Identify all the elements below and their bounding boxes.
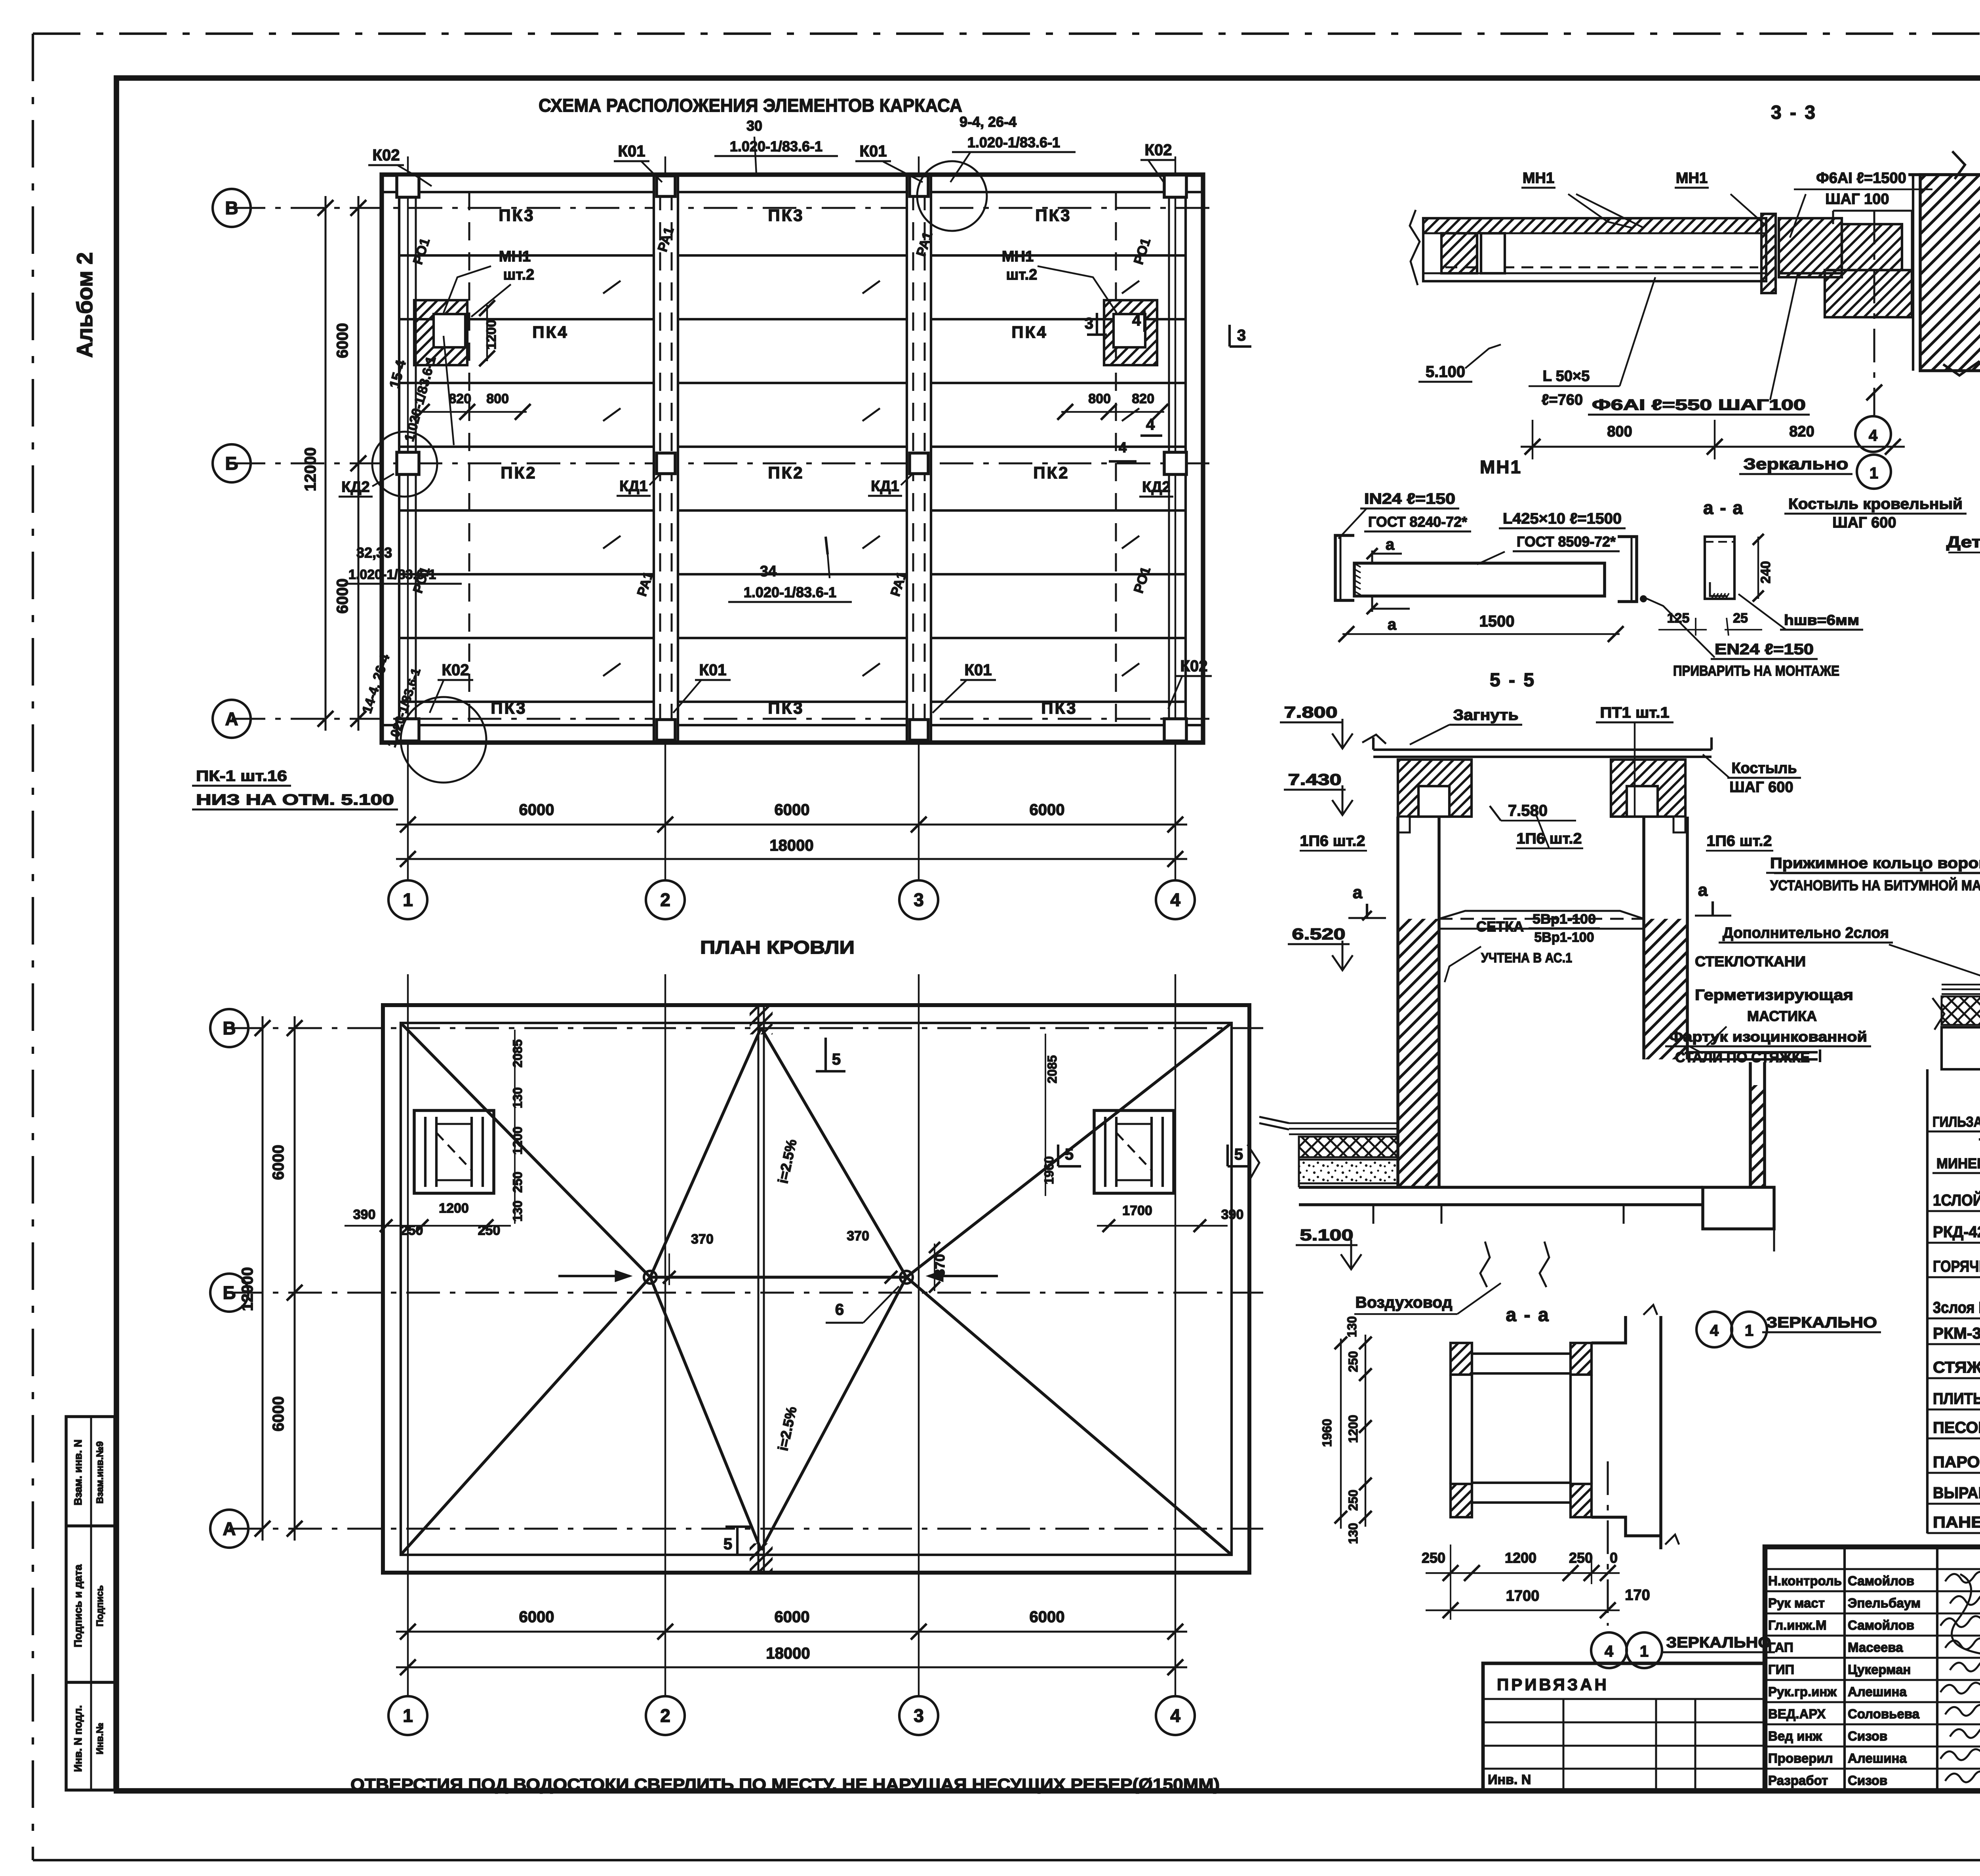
svg-text:МН1: МН1 xyxy=(1676,170,1708,187)
svg-text:Проверил: Проверил xyxy=(1768,1751,1833,1766)
svg-text:Костыль: Костыль xyxy=(1732,760,1797,777)
svg-text:32,33: 32,33 xyxy=(356,545,392,561)
svg-text:1700: 1700 xyxy=(1506,1588,1540,1604)
svg-text:a: a xyxy=(1353,883,1363,902)
svg-text:5: 5 xyxy=(832,1051,841,1068)
svg-text:ОТВЕРСТИЯ ПОД ВОДОСТОКИ СВЕ: ОТВЕРСТИЯ ПОД ВОДОСТОКИ СВЕРЛИТЬ ПО МЕСТ… xyxy=(350,1775,1220,1794)
svg-text:ПАНЕЛИ ПОКРЫТИЯ: ПАНЕЛИ ПОКРЫТИЯ xyxy=(1933,1514,1980,1531)
svg-text:Взам.инв.№9: Взам.инв.№9 xyxy=(95,1441,105,1504)
svg-text:МН1: МН1 xyxy=(499,248,531,265)
svg-text:К01: К01 xyxy=(860,143,887,160)
svg-text:1СЛОЙ РУБЕРОИДА МАРКИ: 1СЛОЙ РУБЕРОИДА МАРКИ xyxy=(1933,1191,1980,1209)
svg-text:3: 3 xyxy=(914,1705,924,1726)
svg-text:ПК4: ПК4 xyxy=(1011,323,1047,341)
svg-text:1.020-1/83.6-1: 1.020-1/83.6-1 xyxy=(744,584,836,600)
svg-text:УЧТЕНА В АС.1: УЧТЕНА В АС.1 xyxy=(1481,950,1572,966)
svg-text:4: 4 xyxy=(1869,427,1878,444)
svg-text:Самойлов: Самойлов xyxy=(1848,1618,1914,1632)
svg-text:РКД-420 ГОСТ10363-76 НА: РКД-420 ГОСТ10363-76 НА xyxy=(1933,1223,1980,1241)
svg-text:Цукерман: Цукерман xyxy=(1848,1662,1911,1677)
svg-text:a: a xyxy=(1388,616,1397,633)
svg-text:130: 130 xyxy=(510,1087,525,1108)
svg-text:Сизов: Сизов xyxy=(1848,1729,1887,1743)
svg-text:5Вр1-100: 5Вр1-100 xyxy=(1533,912,1596,927)
svg-text:800: 800 xyxy=(1088,391,1111,406)
svg-text:В: В xyxy=(223,1018,236,1038)
svg-text:5.100: 5.100 xyxy=(1426,363,1465,381)
svg-text:6000: 6000 xyxy=(334,323,351,358)
svg-text:Загнуть: Загнуть xyxy=(1453,707,1519,724)
svg-text:18000: 18000 xyxy=(766,1645,810,1662)
svg-text:130: 130 xyxy=(510,1200,525,1221)
svg-text:СТЕКЛОТКАНИ: СТЕКЛОТКАНИ xyxy=(1695,953,1806,969)
svg-text:Подпись: Подпись xyxy=(95,1585,105,1627)
svg-text:ПТ1 шт.1: ПТ1 шт.1 xyxy=(1600,705,1670,721)
svg-text:7.430: 7.430 xyxy=(1288,771,1342,788)
svg-text:ЕN24 ℓ=150: ЕN24 ℓ=150 xyxy=(1715,641,1814,658)
svg-text:6000: 6000 xyxy=(270,1396,287,1432)
svg-text:1П6 шт.2: 1П6 шт.2 xyxy=(1517,830,1582,847)
svg-text:125: 125 xyxy=(1667,611,1690,626)
svg-text:6.520: 6.520 xyxy=(1292,926,1346,943)
svg-text:30: 30 xyxy=(746,118,762,134)
svg-text:18000: 18000 xyxy=(769,837,813,854)
svg-text:L425×10 ℓ=1500: L425×10 ℓ=1500 xyxy=(1503,510,1622,527)
svg-text:1960: 1960 xyxy=(1042,1156,1056,1184)
svg-text:КД2: КД2 xyxy=(341,479,369,495)
svg-text:1700: 1700 xyxy=(1122,1203,1152,1218)
svg-text:1: 1 xyxy=(403,1705,413,1726)
svg-text:ШАГ 600: ШАГ 600 xyxy=(1832,514,1896,531)
svg-text:ГОРЯЧЕЙ БИТУМНОЙ МАСТИКЕ: ГОРЯЧЕЙ БИТУМНОЙ МАСТИКЕ xyxy=(1933,1257,1980,1275)
svg-text:ПЕСОК: ПЕСОК xyxy=(1933,1419,1980,1436)
svg-text:ПРИВАРИТЬ НА МОНТАЖЕ: ПРИВАРИТЬ НА МОНТАЖЕ xyxy=(1673,663,1839,679)
svg-text:1.020-1/83.6-1: 1.020-1/83.6-1 xyxy=(967,134,1060,150)
svg-text:130: 130 xyxy=(1345,1316,1359,1337)
svg-text:4: 4 xyxy=(1132,312,1141,329)
svg-text:2: 2 xyxy=(660,889,670,910)
svg-text:ПК2: ПК2 xyxy=(501,463,537,482)
svg-text:5Вр1-100: 5Вр1-100 xyxy=(1534,930,1594,945)
svg-text:12000: 12000 xyxy=(302,447,319,491)
svg-text:820: 820 xyxy=(1789,423,1814,440)
svg-text:ПК3: ПК3 xyxy=(1035,206,1071,225)
svg-text:1200: 1200 xyxy=(1505,1550,1536,1566)
svg-text:Подпись и дата: Подпись и дата xyxy=(72,1564,84,1647)
svg-text:Ф6АI ℓ=1500: Ф6АI ℓ=1500 xyxy=(1816,170,1906,187)
svg-text:Б: Б xyxy=(225,453,238,474)
svg-text:ПК2: ПК2 xyxy=(1033,463,1069,482)
svg-text:5: 5 xyxy=(1065,1146,1074,1163)
svg-text:a: a xyxy=(1698,880,1708,900)
svg-text:Вед инж: Вед инж xyxy=(1768,1729,1822,1743)
svg-text:130: 130 xyxy=(1346,1523,1360,1544)
svg-text:170: 170 xyxy=(1625,1587,1650,1604)
svg-text:1: 1 xyxy=(403,889,413,910)
svg-text:6000: 6000 xyxy=(270,1145,287,1180)
svg-text:МН1: МН1 xyxy=(1523,170,1554,187)
svg-text:1200: 1200 xyxy=(1346,1415,1360,1443)
svg-text:МАСТИКА: МАСТИКА xyxy=(1747,1008,1817,1024)
svg-text:5: 5 xyxy=(723,1535,732,1553)
svg-text:800: 800 xyxy=(486,391,509,406)
svg-text:Деталь А: Деталь А xyxy=(1946,533,1980,551)
svg-text:НИЗ НА ОТМ. 5.100: НИЗ НА ОТМ. 5.100 xyxy=(196,792,394,808)
svg-text:6000: 6000 xyxy=(334,579,351,614)
svg-text:a - a: a - a xyxy=(1703,497,1744,518)
svg-text:ПАРОИЗОЛЯЦИЯ -1СЛОЙ РУБЕРОИДА: ПАРОИЗОЛЯЦИЯ -1СЛОЙ РУБЕРОИДА МАРКИ РКМ-… xyxy=(1933,1453,1980,1471)
svg-text:1200: 1200 xyxy=(484,320,499,350)
svg-text:1: 1 xyxy=(1640,1643,1649,1660)
svg-text:Костыль кровельный: Костыль кровельный xyxy=(1788,496,1963,512)
svg-text:Инв. N подл.: Инв. N подл. xyxy=(72,1705,84,1772)
svg-text:шт.2: шт.2 xyxy=(503,267,535,283)
svg-text:6000: 6000 xyxy=(775,1608,810,1626)
svg-text:шт.2: шт.2 xyxy=(1006,267,1038,283)
svg-text:Масеева: Масеева xyxy=(1848,1640,1903,1655)
svg-text:Взам. инв. N: Взам. инв. N xyxy=(72,1440,84,1506)
svg-text:СХЕМА РАСПОЛОЖЕНИЯ ЭЛЕМЕНТОВ: СХЕМА РАСПОЛОЖЕНИЯ ЭЛЕМЕНТОВ КАРКАСА xyxy=(539,95,962,116)
svg-text:ШАГ 100: ШАГ 100 xyxy=(1825,191,1889,208)
svg-text:Инв.№: Инв.№ xyxy=(95,1723,105,1754)
svg-text:В: В xyxy=(225,198,238,218)
svg-text:6000: 6000 xyxy=(775,801,810,819)
svg-text:ГИЛЬЗА ИЗ АСБОЦЕМЕНТНОЙ: ГИЛЬЗА ИЗ АСБОЦЕМЕНТНОЙ xyxy=(1932,1113,1980,1130)
svg-text:Альбом 2: Альбом 2 xyxy=(72,252,97,358)
svg-text:IN24 ℓ=150: IN24 ℓ=150 xyxy=(1364,491,1455,507)
svg-text:6000: 6000 xyxy=(1030,1608,1065,1626)
svg-text:ВЕД.АРХ: ВЕД.АРХ xyxy=(1768,1706,1826,1721)
svg-text:7.580: 7.580 xyxy=(1508,802,1548,819)
svg-text:ГОСТ 8240-72*: ГОСТ 8240-72* xyxy=(1368,514,1467,530)
svg-text:1960: 1960 xyxy=(1320,1419,1334,1447)
svg-text:СТЯЖКА ИЗ ЦЕМЕНТНОГО РАСТВОРА: СТЯЖКА ИЗ ЦЕМЕНТНОГО РАСТВОРА М100 xyxy=(1933,1359,1980,1376)
svg-text:a: a xyxy=(1386,536,1395,553)
svg-text:Соловьева: Соловьева xyxy=(1848,1706,1920,1721)
svg-text:5 - 5: 5 - 5 xyxy=(1490,670,1536,691)
svg-text:1.020-1/83.6-1: 1.020-1/83.6-1 xyxy=(348,567,436,582)
svg-text:ЗЕРКАЛЬНО: ЗЕРКАЛЬНО xyxy=(1766,1314,1877,1331)
svg-text:ПК-1 шт.16: ПК-1 шт.16 xyxy=(196,768,287,785)
svg-text:hшв=6мм: hшв=6мм xyxy=(1784,612,1859,628)
svg-text:Дополнительно 2слоя: Дополнительно 2слоя xyxy=(1723,925,1889,941)
svg-text:УСТАНОВИТЬ НА БИТУМНОЙ МАСТИКЕ: УСТАНОВИТЬ НА БИТУМНОЙ МАСТИКЕ xyxy=(1770,877,1980,893)
svg-text:1500: 1500 xyxy=(1479,613,1515,630)
svg-text:2085: 2085 xyxy=(1045,1055,1059,1083)
svg-text:3 - 3: 3 - 3 xyxy=(1771,102,1817,123)
svg-text:4: 4 xyxy=(1710,1322,1719,1339)
svg-text:390: 390 xyxy=(353,1207,376,1222)
svg-text:К02: К02 xyxy=(442,661,469,679)
svg-text:ГАП: ГАП xyxy=(1768,1640,1793,1655)
svg-text:6: 6 xyxy=(835,1301,844,1318)
svg-text:34: 34 xyxy=(760,563,777,580)
svg-text:a - a: a - a xyxy=(1506,1305,1550,1326)
svg-text:ПЛИТЫ ФИБРОЛИТОВЫЕ НА ПОРТЛАНД: ПЛИТЫ ФИБРОЛИТОВЫЕ НА ПОРТЛАНДЦЕМЕНТЕ ГО… xyxy=(1933,1390,1980,1407)
svg-text:А: А xyxy=(223,1518,236,1539)
svg-text:250: 250 xyxy=(510,1171,525,1192)
svg-text:ℓ=760: ℓ=760 xyxy=(1542,392,1583,408)
svg-text:820: 820 xyxy=(1132,391,1154,406)
svg-text:КД2: КД2 xyxy=(1142,479,1170,495)
svg-text:ЗЕРКАЛЬНО: ЗЕРКАЛЬНО xyxy=(1666,1634,1771,1651)
svg-text:370: 370 xyxy=(847,1228,869,1244)
svg-text:1П6 шт.2: 1П6 шт.2 xyxy=(1707,833,1772,849)
svg-text:Гл.инж.М: Гл.инж.М xyxy=(1768,1618,1826,1632)
svg-text:4: 4 xyxy=(1605,1643,1614,1660)
svg-text:Воздуховод: Воздуховод xyxy=(1356,1294,1453,1311)
svg-text:2: 2 xyxy=(660,1705,670,1726)
svg-text:КД1: КД1 xyxy=(871,478,899,495)
svg-text:5: 5 xyxy=(1234,1146,1243,1163)
svg-text:Зеркально: Зеркально xyxy=(1744,455,1849,473)
svg-text:Инв. N: Инв. N xyxy=(1488,1772,1531,1787)
svg-text:1200: 1200 xyxy=(439,1201,469,1216)
svg-text:К01: К01 xyxy=(618,143,645,160)
svg-text:250: 250 xyxy=(1346,1351,1360,1372)
svg-text:6000: 6000 xyxy=(519,801,554,819)
svg-text:4: 4 xyxy=(1146,416,1155,433)
svg-text:Разработ: Разработ xyxy=(1768,1773,1828,1788)
svg-text:4: 4 xyxy=(1170,1705,1180,1726)
svg-text:К02: К02 xyxy=(1145,141,1172,159)
svg-text:ПК4: ПК4 xyxy=(532,323,568,341)
svg-text:1: 1 xyxy=(1870,465,1878,482)
svg-text:390: 390 xyxy=(1221,1207,1244,1222)
svg-text:ПК3: ПК3 xyxy=(768,699,804,717)
svg-text:L 50×5: L 50×5 xyxy=(1543,368,1590,385)
svg-text:ГИП: ГИП xyxy=(1768,1662,1794,1677)
svg-text:Самойлов: Самойлов xyxy=(1848,1573,1914,1588)
svg-text:1.020-1/83.6-1: 1.020-1/83.6-1 xyxy=(730,138,822,154)
svg-text:ПК2: ПК2 xyxy=(768,463,804,482)
svg-text:Н.контроль: Н.контроль xyxy=(1768,1573,1842,1588)
svg-text:Б: Б xyxy=(223,1282,236,1303)
svg-text:ПЛАН КРОВЛИ: ПЛАН КРОВЛИ xyxy=(700,937,855,958)
svg-text:К02: К02 xyxy=(373,147,400,164)
svg-text:Алешина: Алешина xyxy=(1848,1684,1907,1699)
svg-text:ПК3: ПК3 xyxy=(768,206,804,225)
svg-text:Рук маст: Рук маст xyxy=(1768,1596,1825,1610)
svg-text:К01: К01 xyxy=(699,661,727,679)
svg-text:250: 250 xyxy=(1422,1550,1445,1566)
svg-text:Фартук изоцинкованной: Фартук изоцинкованной xyxy=(1669,1028,1867,1045)
svg-text:3: 3 xyxy=(1237,327,1246,344)
svg-text:МИНЕРАЛЬНЫЙ ВОЙЛОК: МИНЕРАЛЬНЫЙ ВОЙЛОК xyxy=(1936,1155,1980,1171)
svg-text:РКМ-350Б ГОСТ10363-76 НА ГОРЯЧ: РКМ-350Б ГОСТ10363-76 НА ГОРЯЧЕЙ БИТУМНО… xyxy=(1933,1324,1980,1342)
svg-text:240: 240 xyxy=(1758,561,1773,584)
svg-text:А: А xyxy=(225,708,238,729)
svg-text:9-4, 26-4: 9-4, 26-4 xyxy=(960,114,1017,130)
svg-text:КД1: КД1 xyxy=(619,478,647,495)
svg-text:3: 3 xyxy=(914,889,924,910)
svg-text:5.100: 5.100 xyxy=(1300,1227,1354,1244)
svg-text:ВЫРАВНИВАЮЩАЯ СТЯЖКА ИЗ ЦЕМЕНТ: ВЫРАВНИВАЮЩАЯ СТЯЖКА ИЗ ЦЕМЕНТНОГО РАСТВ… xyxy=(1933,1484,1980,1502)
svg-text:3слоя РУБЕРОИДА МАРКИ: 3слоя РУБЕРОИДА МАРКИ xyxy=(1933,1299,1980,1316)
svg-text:Ф6АІ ℓ=550 ШАГ100: Ф6АІ ℓ=550 ШАГ100 xyxy=(1592,397,1806,413)
svg-text:Алешина: Алешина xyxy=(1848,1751,1907,1766)
svg-text:0: 0 xyxy=(1610,1550,1618,1566)
svg-text:4: 4 xyxy=(1119,439,1127,455)
svg-text:6000: 6000 xyxy=(1030,801,1065,819)
svg-text:К01: К01 xyxy=(965,661,992,679)
svg-text:Эпельбаум: Эпельбаум xyxy=(1848,1596,1921,1610)
svg-text:370: 370 xyxy=(691,1232,714,1247)
svg-text:250: 250 xyxy=(1569,1550,1593,1566)
svg-text:СЕТКА: СЕТКА xyxy=(1476,918,1524,935)
svg-text:6000: 6000 xyxy=(519,1608,554,1626)
svg-text:МН1: МН1 xyxy=(1002,248,1034,265)
svg-text:МН1: МН1 xyxy=(1480,457,1522,477)
svg-text:ГОСТ 8509-72*: ГОСТ 8509-72* xyxy=(1517,533,1616,550)
svg-text:1: 1 xyxy=(1745,1322,1753,1339)
svg-text:ПК3: ПК3 xyxy=(491,699,527,717)
svg-text:ШАГ 600: ШАГ 600 xyxy=(1729,779,1793,796)
svg-text:1200: 1200 xyxy=(510,1126,525,1154)
svg-text:2085: 2085 xyxy=(510,1039,525,1067)
svg-text:К02: К02 xyxy=(1180,657,1208,675)
svg-text:250: 250 xyxy=(1346,1489,1360,1510)
svg-text:800: 800 xyxy=(1607,423,1632,440)
svg-text:1П6 шт.2: 1П6 шт.2 xyxy=(1300,833,1365,849)
svg-text:Рук.гр.инж: Рук.гр.инж xyxy=(1768,1684,1837,1699)
svg-text:Сизов: Сизов xyxy=(1848,1773,1887,1788)
svg-text:25: 25 xyxy=(1733,611,1748,626)
svg-text:Герметизирующая: Герметизирующая xyxy=(1695,987,1853,1004)
svg-text:СТАЛИ ПО СТЯЖКЕ: СТАЛИ ПО СТЯЖКЕ xyxy=(1675,1049,1810,1065)
svg-text:3: 3 xyxy=(1085,315,1093,332)
svg-text:ПРИВЯЗАН: ПРИВЯЗАН xyxy=(1497,1675,1609,1694)
svg-text:7.800: 7.800 xyxy=(1284,704,1338,721)
svg-text:ПК3: ПК3 xyxy=(1041,699,1077,717)
svg-text:ПК3: ПК3 xyxy=(499,206,535,225)
svg-text:820: 820 xyxy=(449,391,471,406)
svg-text:4: 4 xyxy=(1170,889,1180,910)
svg-text:Прижимное кольцо воронки: Прижимное кольцо воронки xyxy=(1770,855,1980,872)
